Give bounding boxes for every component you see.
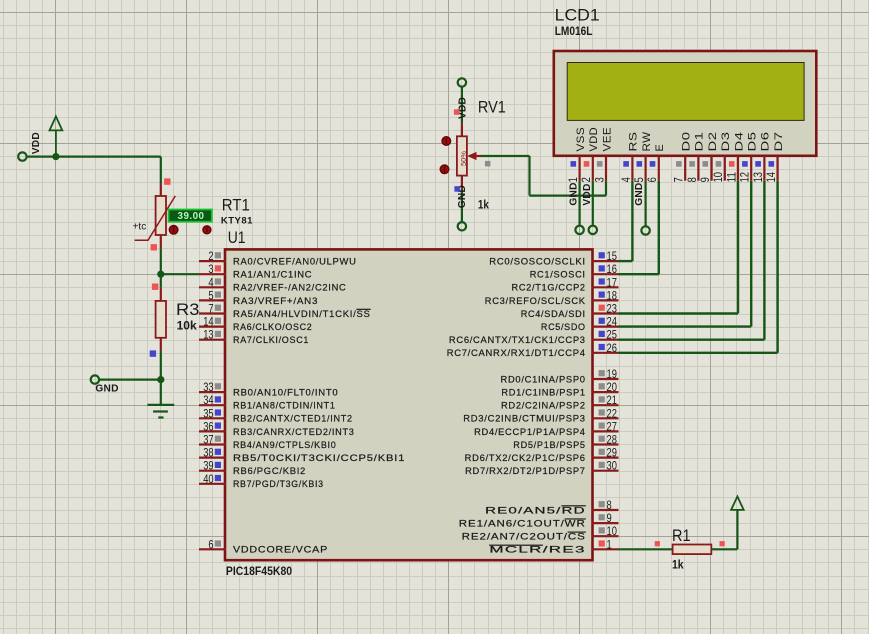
label VDD net (RV1 top) xyxy=(458,97,469,119)
svg-text:RD2/C2INA/PSP2: RD2/C2INA/PSP2 xyxy=(501,401,586,412)
svg-text:RA1/AN1/C1INC: RA1/AN1/C1INC xyxy=(233,270,312,281)
terminal GND left xyxy=(91,375,99,383)
wire RT1 to junction xyxy=(160,235,162,274)
label RV1 xyxy=(478,98,506,117)
label GND net (RW) xyxy=(634,183,645,206)
LCD pin 14 D7 xyxy=(764,132,785,183)
svg-text:GND: GND xyxy=(569,182,580,205)
LCD pin 8 D1 xyxy=(685,132,706,183)
U1 pin 16 row xyxy=(530,262,619,280)
svg-text:GND: GND xyxy=(95,383,118,394)
thermistor RT1 body xyxy=(156,196,166,235)
resistor R3 body xyxy=(156,301,166,338)
LCD LM016L body xyxy=(554,51,817,156)
node junction RA1 xyxy=(157,271,164,278)
svg-text:RA5/AN4/HLVDIN/T1CKI/SS: RA5/AN4/HLVDIN/T1CKI/SS xyxy=(233,309,371,320)
wire RV1 bottom xyxy=(461,176,463,222)
svg-text:13: 13 xyxy=(751,172,765,182)
svg-text:RE1/AN6/C1OUT/WR: RE1/AN6/C1OUT/WR xyxy=(459,519,586,530)
label GND terminal xyxy=(95,383,118,394)
svg-text:KTY81: KTY81 xyxy=(221,215,253,226)
svg-text:27: 27 xyxy=(607,419,617,433)
svg-text:RB5/T0CKI/T3CKI/CCP5/KBI1: RB5/T0CKI/T3CKI/CCP5/KBI1 xyxy=(233,453,405,464)
label GND net (VSS) xyxy=(569,182,580,205)
microcontroller U1 body xyxy=(225,249,593,560)
svg-text:U1: U1 xyxy=(228,228,246,247)
U1 pin 2 row xyxy=(199,249,357,267)
terminal RV1 bottom xyxy=(458,222,466,230)
wire LCD RS to RC0 xyxy=(619,181,633,261)
U1 pin 24 row xyxy=(541,315,619,333)
svg-text:GND: GND xyxy=(634,183,645,206)
wire junction to RA1 pin xyxy=(161,273,199,275)
svg-text:9: 9 xyxy=(698,177,712,182)
wire junction down to R3 xyxy=(160,274,162,301)
svg-text:28: 28 xyxy=(607,433,617,447)
svg-text:RC5/SDO: RC5/SDO xyxy=(541,322,586,333)
svg-text:2: 2 xyxy=(579,177,593,182)
wire LCD RW to GND terminal xyxy=(644,181,646,227)
svg-text:6: 6 xyxy=(208,537,213,551)
svg-text:1k: 1k xyxy=(672,558,684,572)
LCD pin 2 VDD xyxy=(579,127,600,182)
thermistor RT1 +tc label xyxy=(133,221,147,232)
svg-text:14: 14 xyxy=(764,172,778,182)
U1 pin 18 row xyxy=(485,288,619,306)
U1 pin 34 row xyxy=(199,393,336,411)
LCD pin 1 VSS xyxy=(566,127,587,182)
svg-text:RB6/PGC/KBI2: RB6/PGC/KBI2 xyxy=(233,466,306,477)
net state square (R3 bottom) xyxy=(150,350,156,356)
LCD pin 13 D6 xyxy=(751,132,772,183)
svg-text:8: 8 xyxy=(607,498,612,512)
svg-text:30: 30 xyxy=(607,459,617,473)
svg-text:10: 10 xyxy=(711,172,725,182)
U1 pin 10 row xyxy=(462,524,619,542)
svg-text:RA2/VREF-/AN2/C2INC: RA2/VREF-/AN2/C2INC xyxy=(233,283,347,294)
node junction GND xyxy=(157,376,164,383)
U1 pin 22 row xyxy=(463,406,618,424)
svg-text:RA0/CVREF/AN0/ULPWU: RA0/CVREF/AN0/ULPWU xyxy=(233,257,357,268)
net state square (wiper wire) xyxy=(485,161,491,167)
svg-text:6: 6 xyxy=(645,177,659,182)
svg-text:+tc: +tc xyxy=(133,221,147,232)
U1 pin 30 row xyxy=(465,459,618,477)
svg-text:17: 17 xyxy=(607,275,617,289)
net state square VDD xyxy=(454,109,460,115)
svg-text:36: 36 xyxy=(203,419,213,433)
svg-text:12: 12 xyxy=(738,172,752,182)
U1 pin 39 row xyxy=(199,459,306,477)
svg-text:RA6/CLKO/OSC2: RA6/CLKO/OSC2 xyxy=(233,322,312,333)
U1 pin 4 row xyxy=(199,275,347,293)
U1 pin 6 row xyxy=(199,537,328,555)
U1 pin 13 row xyxy=(199,328,309,346)
svg-text:RB7/PGD/T3G/KBI3: RB7/PGD/T3G/KBI3 xyxy=(233,479,324,490)
svg-text:39: 39 xyxy=(203,459,213,473)
svg-text:D5: D5 xyxy=(747,132,759,152)
svg-text:13: 13 xyxy=(203,328,213,342)
svg-text:24: 24 xyxy=(607,315,617,329)
terminal GND (RW) xyxy=(641,226,649,234)
svg-text:1: 1 xyxy=(566,177,580,182)
U1 pin 5 row xyxy=(199,288,318,306)
svg-text:39.00: 39.00 xyxy=(178,211,205,222)
U1 pin 35 row xyxy=(199,406,353,424)
svg-text:50%: 50% xyxy=(459,151,468,166)
label R1 xyxy=(672,526,691,545)
svg-text:VEE: VEE xyxy=(601,127,613,152)
svg-text:5: 5 xyxy=(632,177,646,182)
svg-text:10k: 10k xyxy=(177,319,197,333)
svg-text:PIC18F45K80: PIC18F45K80 xyxy=(226,564,292,578)
svg-text:RE0/AN5/RD: RE0/AN5/RD xyxy=(485,505,586,516)
svg-text:RD7/RX2/DT2/P1D/PSP7: RD7/RX2/DT2/P1D/PSP7 xyxy=(465,466,586,477)
svg-text:D1: D1 xyxy=(694,132,706,152)
label R3 value 10k xyxy=(177,319,197,333)
svg-text:7: 7 xyxy=(672,177,686,182)
LCD pin 4 RS xyxy=(619,132,640,183)
wire LCD VDD to power terminal xyxy=(592,181,594,226)
U1 pin 26 row xyxy=(447,341,619,359)
net state square (R1 left) xyxy=(655,541,660,546)
wire LCD E to RC1 xyxy=(619,181,659,275)
svg-text:18: 18 xyxy=(607,288,617,302)
svg-text:5: 5 xyxy=(208,288,213,302)
wire RV1 top xyxy=(461,87,463,137)
svg-text:22: 22 xyxy=(607,406,617,420)
U1 pin 15 row xyxy=(489,249,618,267)
svg-text:15: 15 xyxy=(607,249,617,263)
label RV1 50% xyxy=(459,151,468,166)
svg-text:RS: RS xyxy=(628,132,640,152)
U1 pin 21 row xyxy=(501,393,619,411)
svg-text:RA7/CLKI/OSC1: RA7/CLKI/OSC1 xyxy=(233,335,309,346)
terminal GND (VSS) xyxy=(575,226,583,234)
power symbol VDD arrow (R1) xyxy=(731,497,744,510)
label KTY81 xyxy=(221,215,253,226)
terminal RV1 top xyxy=(458,78,466,86)
LCD pin 6 E xyxy=(645,144,666,182)
svg-text:RB2/CANTX/CTED1/INT2: RB2/CANTX/CTED1/INT2 xyxy=(233,414,353,425)
svg-text:RD0/C1INA/PSP0: RD0/C1INA/PSP0 xyxy=(501,374,586,385)
svg-text:33: 33 xyxy=(203,380,213,394)
LCD pin 5 RW xyxy=(632,131,653,182)
svg-text:RD3/C2INB/CTMUI/PSP3: RD3/C2INB/CTMUI/PSP3 xyxy=(463,414,585,425)
svg-text:2: 2 xyxy=(208,249,213,263)
wire LCD D7 to RC7 xyxy=(619,181,778,353)
LCD pin 9 D2 xyxy=(698,132,719,183)
svg-text:VDDCORE/VCAP: VDDCORE/VCAP xyxy=(233,545,328,556)
svg-text:25: 25 xyxy=(607,328,617,342)
svg-text:RB1/AN8/CTDIN/INT1: RB1/AN8/CTDIN/INT1 xyxy=(233,401,336,412)
U1 pin 14 row xyxy=(199,315,312,333)
LCD pin 3 VEE xyxy=(592,127,613,182)
wire corner down to RT1 xyxy=(160,157,162,197)
net state square (R1 right) xyxy=(720,541,725,546)
svg-text:RB0/AN10/FLT0/INT0: RB0/AN10/FLT0/INT0 xyxy=(233,388,338,399)
resistor R1 body xyxy=(673,545,712,555)
svg-text:10: 10 xyxy=(607,524,617,538)
svg-text:R1: R1 xyxy=(672,526,691,545)
svg-text:4: 4 xyxy=(208,275,213,289)
svg-text:RD6/TX2/CK2/P1C/PSP6: RD6/TX2/CK2/P1C/PSP6 xyxy=(465,453,586,464)
svg-text:RC1/SOSCI: RC1/SOSCI xyxy=(530,270,586,281)
U1 pin 9 row xyxy=(459,511,619,529)
potentiometer RV1 wiper arrow xyxy=(467,152,481,160)
svg-text:RD4/ECCP1/P1A/PSP4: RD4/ECCP1/P1A/PSP4 xyxy=(474,427,586,438)
svg-text:RD5/P1B/PSP5: RD5/P1B/PSP5 xyxy=(513,440,585,451)
U1 pin 20 row xyxy=(501,380,618,398)
svg-text:D3: D3 xyxy=(720,132,732,152)
U1 pin 37 row xyxy=(199,433,336,451)
svg-text:D7: D7 xyxy=(773,132,785,152)
wire LCD D6 to RC6 xyxy=(619,181,765,340)
U1 pin 23 row xyxy=(521,302,619,320)
U1 pin 1 row xyxy=(489,537,618,555)
button RT1 increase xyxy=(203,226,211,234)
svg-text:RA3/VREF+/AN3: RA3/VREF+/AN3 xyxy=(233,296,318,307)
button RT1 decrease xyxy=(169,226,178,235)
svg-text:23: 23 xyxy=(607,302,617,316)
svg-text:LCD1: LCD1 xyxy=(555,5,600,24)
U1 pin 19 row xyxy=(501,367,619,385)
button RV1 down xyxy=(440,165,449,174)
terminal VDD (LCD) xyxy=(589,226,597,234)
wire RV1 wiper to VEE xyxy=(481,156,606,196)
svg-text:RC6/CANTX/TX1/CK1/CCP3: RC6/CANTX/TX1/CK1/CCP3 xyxy=(449,335,586,346)
wire GND terminal to junction xyxy=(99,379,161,381)
U1 pin 3 row xyxy=(199,262,312,280)
wire LCD D4 to RC4 xyxy=(619,181,739,314)
power terminal VDD input xyxy=(18,132,42,161)
svg-text:RC4/SDA/SDI: RC4/SDA/SDI xyxy=(521,309,586,320)
label RV1 value 1k xyxy=(478,197,489,211)
label R3 xyxy=(176,300,199,319)
svg-text:1k: 1k xyxy=(478,197,489,211)
label LM016L xyxy=(555,24,593,38)
svg-text:RC0/SOSCO/SCLKI: RC0/SOSCO/SCLKI xyxy=(489,257,585,268)
U1 pin 40 row xyxy=(199,472,324,490)
svg-text:35: 35 xyxy=(203,406,213,420)
net state square GND (RV1) xyxy=(454,186,460,192)
svg-text:VSS: VSS xyxy=(575,127,587,152)
svg-text:RC3/REFO/SCL/SCK: RC3/REFO/SCL/SCK xyxy=(485,296,586,307)
svg-text:VDD: VDD xyxy=(588,127,600,152)
svg-text:4: 4 xyxy=(619,177,633,182)
thermistor RT1 diagonal xyxy=(135,196,176,240)
svg-text:3: 3 xyxy=(208,262,213,276)
svg-text:RB3/CANRX/CTED2/INT3: RB3/CANRX/CTED2/INT3 xyxy=(233,427,355,438)
U1 pin 36 row xyxy=(199,419,355,437)
svg-text:RD1/C1INB/PSP1: RD1/C1INB/PSP1 xyxy=(501,388,585,399)
svg-text:R3: R3 xyxy=(176,300,199,319)
U1 pin 27 row xyxy=(474,419,618,437)
svg-text:RC2/T1G/CCP2: RC2/T1G/CCP2 xyxy=(512,283,586,294)
svg-text:E: E xyxy=(654,144,666,152)
wire MCLR to R1 xyxy=(619,548,673,550)
button RV1 up xyxy=(442,137,451,146)
power symbol VDD arrow xyxy=(50,116,63,156)
svg-text:9: 9 xyxy=(607,511,612,525)
svg-text:RE2/AN7/C2OUT/CS: RE2/AN7/C2OUT/CS xyxy=(462,532,586,543)
LCD screen xyxy=(567,63,804,121)
wire LCD VSS to GND terminal xyxy=(578,181,580,226)
svg-text:21: 21 xyxy=(607,393,617,407)
net state square (R3 top) xyxy=(152,284,158,290)
svg-text:8: 8 xyxy=(685,177,699,182)
label VDD net (LCD) xyxy=(582,183,593,205)
svg-text:RC7/CANRX/RX1/DT1/CCP4: RC7/CANRX/RX1/DT1/CCP4 xyxy=(447,348,586,359)
ground symbol xyxy=(147,380,174,418)
svg-text:RW: RW xyxy=(641,131,653,151)
svg-text:RV1: RV1 xyxy=(478,98,506,117)
svg-text:11: 11 xyxy=(724,172,738,182)
svg-text:19: 19 xyxy=(607,367,617,381)
svg-text:34: 34 xyxy=(203,393,213,407)
svg-text:29: 29 xyxy=(607,446,617,460)
LCD pin 11 D4 xyxy=(724,132,745,183)
wire LCD D5 to RC5 xyxy=(619,181,752,327)
svg-text:7: 7 xyxy=(208,302,213,316)
svg-text:3: 3 xyxy=(592,177,606,182)
wire R3 to GND junction xyxy=(160,338,162,380)
node junction at VDD arrow xyxy=(52,153,59,160)
svg-text:37: 37 xyxy=(203,433,213,447)
wire VDD terminal to RT1 corner xyxy=(27,156,161,158)
svg-text:D0: D0 xyxy=(681,132,693,152)
display RT1 value 39.00 xyxy=(169,210,212,223)
U1 pin 38 row xyxy=(199,446,405,464)
svg-text:VDD: VDD xyxy=(582,183,593,205)
svg-text:14: 14 xyxy=(203,315,213,329)
U1 pin 8 row xyxy=(485,498,618,516)
svg-text:D4: D4 xyxy=(733,132,745,152)
U1 pin 33 row xyxy=(199,380,338,398)
svg-text:40: 40 xyxy=(203,472,213,486)
svg-text:20: 20 xyxy=(607,380,617,394)
LCD pin 10 D3 xyxy=(711,132,732,183)
label PIC18F45K80 xyxy=(226,564,292,578)
net state square (RT1 top) xyxy=(164,178,170,184)
label LCD1 xyxy=(555,5,600,24)
svg-text:D2: D2 xyxy=(707,132,719,152)
svg-text:38: 38 xyxy=(203,446,213,460)
U1 pin 29 row xyxy=(465,446,619,464)
label U1 xyxy=(228,228,246,247)
U1 pin 17 row xyxy=(512,275,619,293)
svg-text:1: 1 xyxy=(607,537,612,551)
svg-text:26: 26 xyxy=(607,341,617,355)
label GND net (RV1 bottom) xyxy=(457,185,468,208)
net state square (RT1 bottom) xyxy=(151,244,157,250)
LCD pin 12 D5 xyxy=(738,132,759,183)
svg-text:RB4/AN9/CTPLS/KBI0: RB4/AN9/CTPLS/KBI0 xyxy=(233,440,336,451)
wire R1 to VDD arrow xyxy=(711,510,737,549)
svg-text:16: 16 xyxy=(607,262,617,276)
svg-text:D6: D6 xyxy=(760,132,772,152)
svg-text:LM016L: LM016L xyxy=(555,24,593,38)
U1 pin 28 row xyxy=(513,433,618,451)
svg-text:VDD: VDD xyxy=(31,132,42,154)
svg-text:MCLR/RE3: MCLR/RE3 xyxy=(489,545,585,556)
label R1 value 1k xyxy=(672,558,684,572)
U1 pin 7 row xyxy=(199,302,371,320)
svg-text:VDD: VDD xyxy=(458,97,469,119)
potentiometer RV1 body xyxy=(457,136,467,175)
LCD pin 7 D0 xyxy=(672,132,693,183)
label RT1 xyxy=(222,195,250,214)
U1 pin 25 row xyxy=(449,328,619,346)
svg-text:RT1: RT1 xyxy=(222,195,250,214)
